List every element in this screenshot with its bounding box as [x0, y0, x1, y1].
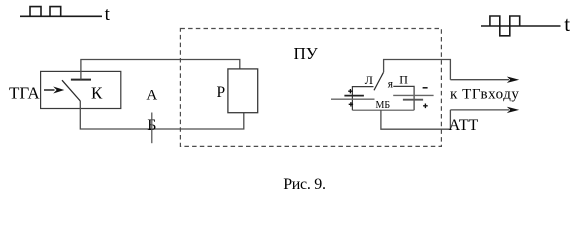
svg-text:К: К — [91, 84, 103, 103]
right contact wire — [393, 86, 414, 110]
wire: armature to output corner — [384, 60, 451, 80]
svg-text:я: я — [388, 79, 394, 91]
svg-text:А: А — [146, 87, 157, 103]
right battery long plate — [393, 94, 433, 96]
output arrow to TG input — [450, 79, 509, 81]
svg-text:t: t — [564, 12, 570, 36]
plus sign right — [423, 104, 428, 109]
output bipolar waveform pulses — [490, 16, 520, 36]
svg-text:t: t — [105, 4, 111, 25]
plus sign lower left — [349, 102, 353, 106]
svg-text:АТТ: АТТ — [449, 117, 479, 134]
svg-text:ТГА: ТГА — [9, 84, 40, 103]
dashed box PU — [180, 29, 441, 147]
switch K fixed contact bar — [71, 79, 91, 81]
switch K moving arm — [62, 80, 80, 101]
right battery short plate — [403, 99, 423, 101]
output arrow ATT — [450, 109, 509, 111]
input pulse waveform pulses — [30, 7, 61, 17]
relay P box — [228, 69, 258, 113]
node B tick — [151, 113, 153, 144]
left battery short plate — [344, 95, 364, 97]
left battery long plate — [331, 98, 375, 100]
svg-text:Р: Р — [217, 84, 226, 101]
svg-text:Рис. 9.: Рис. 9. — [283, 176, 325, 193]
output bipolar waveform axis — [481, 25, 561, 27]
input pulse waveform axis — [20, 15, 102, 17]
svg-text:ПУ: ПУ — [294, 44, 319, 63]
svg-text:П: П — [399, 73, 408, 87]
left contact wire — [352, 87, 373, 111]
actuation arrow — [44, 89, 55, 91]
wire: switch top to relay P top — [81, 60, 240, 80]
battery bottom wire — [352, 109, 414, 111]
vibrator armature arm — [374, 72, 384, 90]
wire: battery center tap to ATT output — [381, 110, 451, 129]
svg-text:к ТГвходу: к ТГвходу — [450, 86, 519, 102]
svg-text:МБ: МБ — [376, 100, 391, 111]
box K (switch block) — [41, 71, 121, 108]
minus sign — [423, 87, 428, 89]
svg-text:Л: Л — [365, 73, 373, 87]
plus sign upper left — [348, 89, 352, 93]
wire: switch bottom to relay P bottom — [80, 101, 244, 129]
